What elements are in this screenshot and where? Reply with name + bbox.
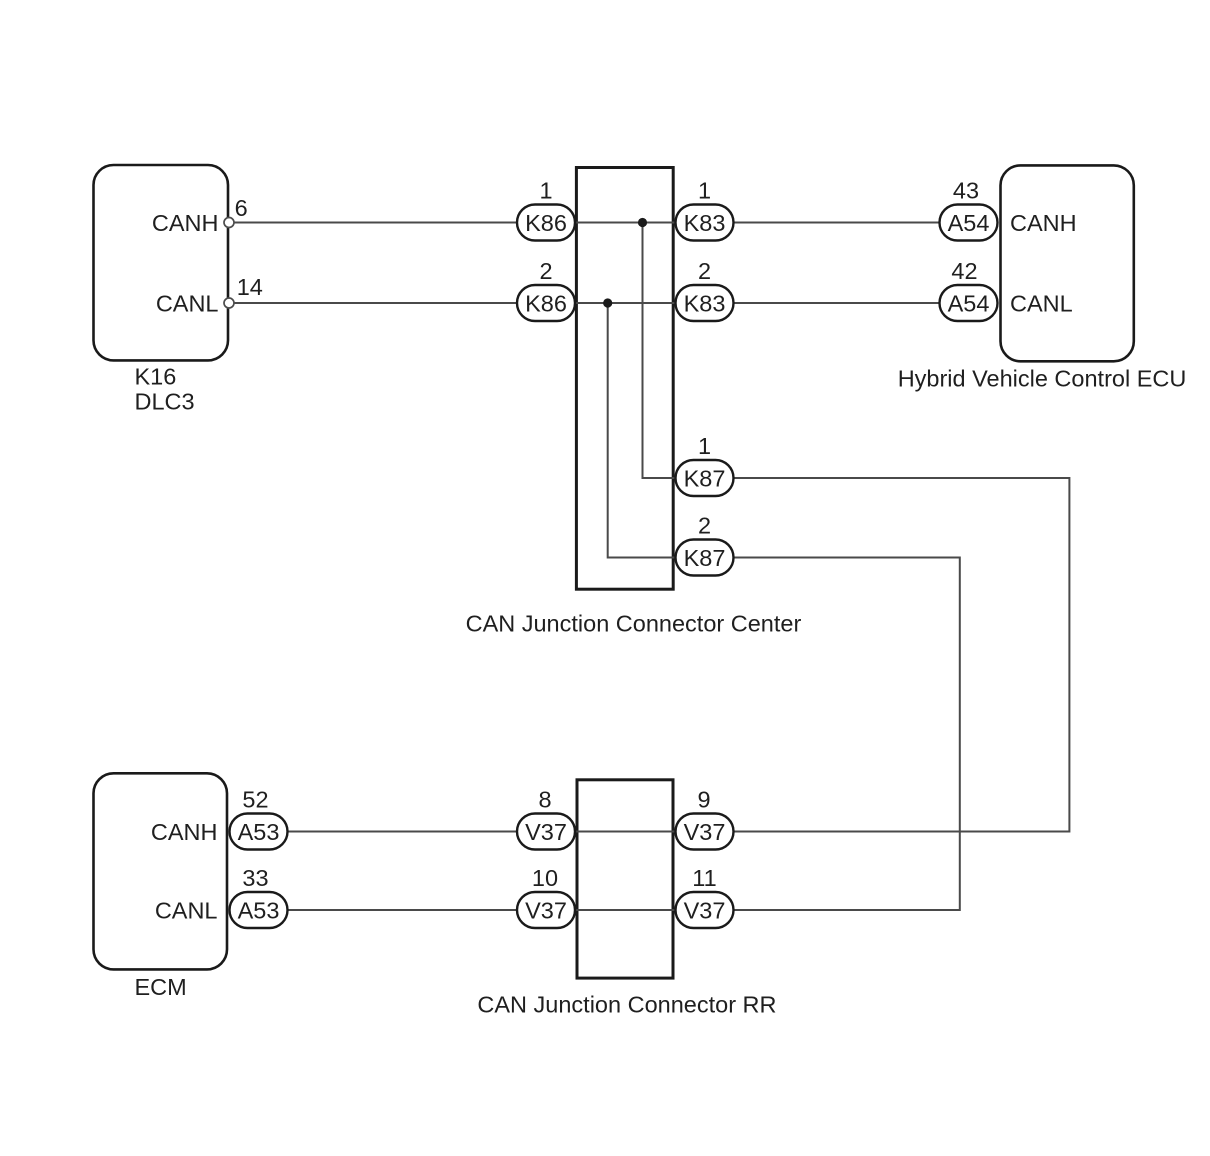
- wire branch CANH to K87 pin1: [643, 223, 677, 479]
- svg-text:CANH: CANH: [1010, 210, 1077, 236]
- svg-text:8: 8: [538, 787, 551, 813]
- svg-text:DLC3: DLC3: [135, 389, 195, 415]
- svg-text:CANL: CANL: [156, 290, 219, 316]
- svg-text:K16: K16: [135, 364, 177, 390]
- svg-text:9: 9: [697, 787, 710, 813]
- svg-text:CANL: CANL: [155, 897, 218, 923]
- connector oval K86 pin2: [517, 285, 575, 321]
- svg-text:CANL: CANL: [1010, 290, 1073, 316]
- wire ECM CANL A53 to V37 pin10: [288, 909, 518, 911]
- svg-text:Hybrid Vehicle Control ECU: Hybrid Vehicle Control ECU: [898, 366, 1187, 392]
- svg-text:A53: A53: [238, 819, 280, 845]
- terminal circle DLC3 pin 14: [224, 298, 234, 308]
- connector oval A54 pin43: [940, 205, 998, 241]
- connector oval A53 pin52: [230, 814, 288, 850]
- connector oval A53 pin33: [230, 892, 288, 928]
- svg-text:K83: K83: [684, 290, 726, 316]
- wire through junction center row2 K86-2 to K83-2: [575, 302, 676, 304]
- svg-text:11: 11: [692, 865, 716, 891]
- svg-text:K87: K87: [684, 465, 726, 491]
- svg-text:33: 33: [242, 865, 268, 891]
- svg-text:V37: V37: [684, 897, 726, 923]
- connector oval V37 pin8: [517, 814, 575, 850]
- wire through junction center row1 K86-1 to K83-1: [575, 222, 676, 224]
- wire K87 pin2 to V37 pin11: [734, 558, 960, 911]
- svg-text:CANH: CANH: [152, 210, 219, 236]
- svg-text:V37: V37: [684, 819, 726, 845]
- svg-text:1: 1: [539, 178, 552, 204]
- svg-text:2: 2: [698, 258, 711, 284]
- connector oval V37 pin11: [676, 892, 734, 928]
- svg-text:A54: A54: [948, 210, 990, 236]
- CAN Junction Connector RR body: [577, 780, 673, 978]
- CAN Junction Connector Center body: [576, 168, 673, 590]
- wire ECM CANH A53 to V37 pin8: [288, 831, 518, 833]
- svg-text:2: 2: [698, 513, 711, 539]
- svg-text:K87: K87: [684, 545, 726, 571]
- svg-text:K86: K86: [525, 210, 567, 236]
- ECM box body: [94, 773, 228, 969]
- connector oval K83 pin1: [676, 205, 734, 241]
- connector oval K83 pin2: [676, 285, 734, 321]
- wire K87 pin1 to V37 pin9: [734, 478, 1070, 832]
- svg-text:A54: A54: [948, 290, 990, 316]
- connector K16 DLC3 body: [94, 165, 229, 360]
- svg-text:CANH: CANH: [151, 819, 218, 845]
- wire branch CANL to K87 pin2: [608, 303, 676, 558]
- svg-text:14: 14: [237, 274, 263, 300]
- svg-text:K83: K83: [684, 210, 726, 236]
- wire K83 pin2 to A54 pin42: [734, 302, 941, 304]
- svg-text:CAN Junction Connector RR: CAN Junction Connector RR: [477, 992, 776, 1018]
- ECU box Hybrid Vehicle Control ECU body: [1001, 165, 1134, 361]
- wire K83 pin1 to A54 pin43: [734, 222, 941, 224]
- svg-text:A53: A53: [238, 897, 280, 923]
- svg-text:6: 6: [235, 195, 248, 221]
- svg-text:1: 1: [698, 178, 711, 204]
- svg-text:43: 43: [953, 178, 979, 204]
- svg-text:K86: K86: [525, 290, 567, 316]
- junction dot CANH: [638, 218, 647, 227]
- svg-text:V37: V37: [525, 897, 567, 923]
- svg-text:1: 1: [698, 433, 711, 459]
- connector oval K87 pin2: [676, 540, 734, 576]
- svg-text:V37: V37: [525, 819, 567, 845]
- svg-text:52: 52: [242, 787, 268, 813]
- connector oval K86 pin1: [517, 205, 575, 241]
- svg-text:10: 10: [532, 865, 558, 891]
- connector oval V37 pin10: [517, 892, 575, 928]
- svg-text:CAN Junction Connector Center: CAN Junction Connector Center: [466, 611, 802, 637]
- svg-text:ECM: ECM: [135, 974, 187, 1000]
- junction dot CANL: [603, 298, 612, 307]
- connector oval A54 pin42: [940, 285, 998, 321]
- svg-text:42: 42: [951, 258, 977, 284]
- wire CANL DLC3 to K86 pin2: [233, 302, 517, 304]
- wire through junction RR row2 V37-10 to V37-11: [575, 909, 676, 911]
- wire through junction RR row1 V37-8 to V37-9: [575, 831, 676, 833]
- terminal circle DLC3 pin 6: [224, 218, 234, 228]
- connector oval V37 pin9: [676, 814, 734, 850]
- connector oval K87 pin1: [676, 460, 734, 496]
- wire CANH DLC3 to K86 pin1: [233, 222, 517, 224]
- svg-text:2: 2: [539, 258, 552, 284]
